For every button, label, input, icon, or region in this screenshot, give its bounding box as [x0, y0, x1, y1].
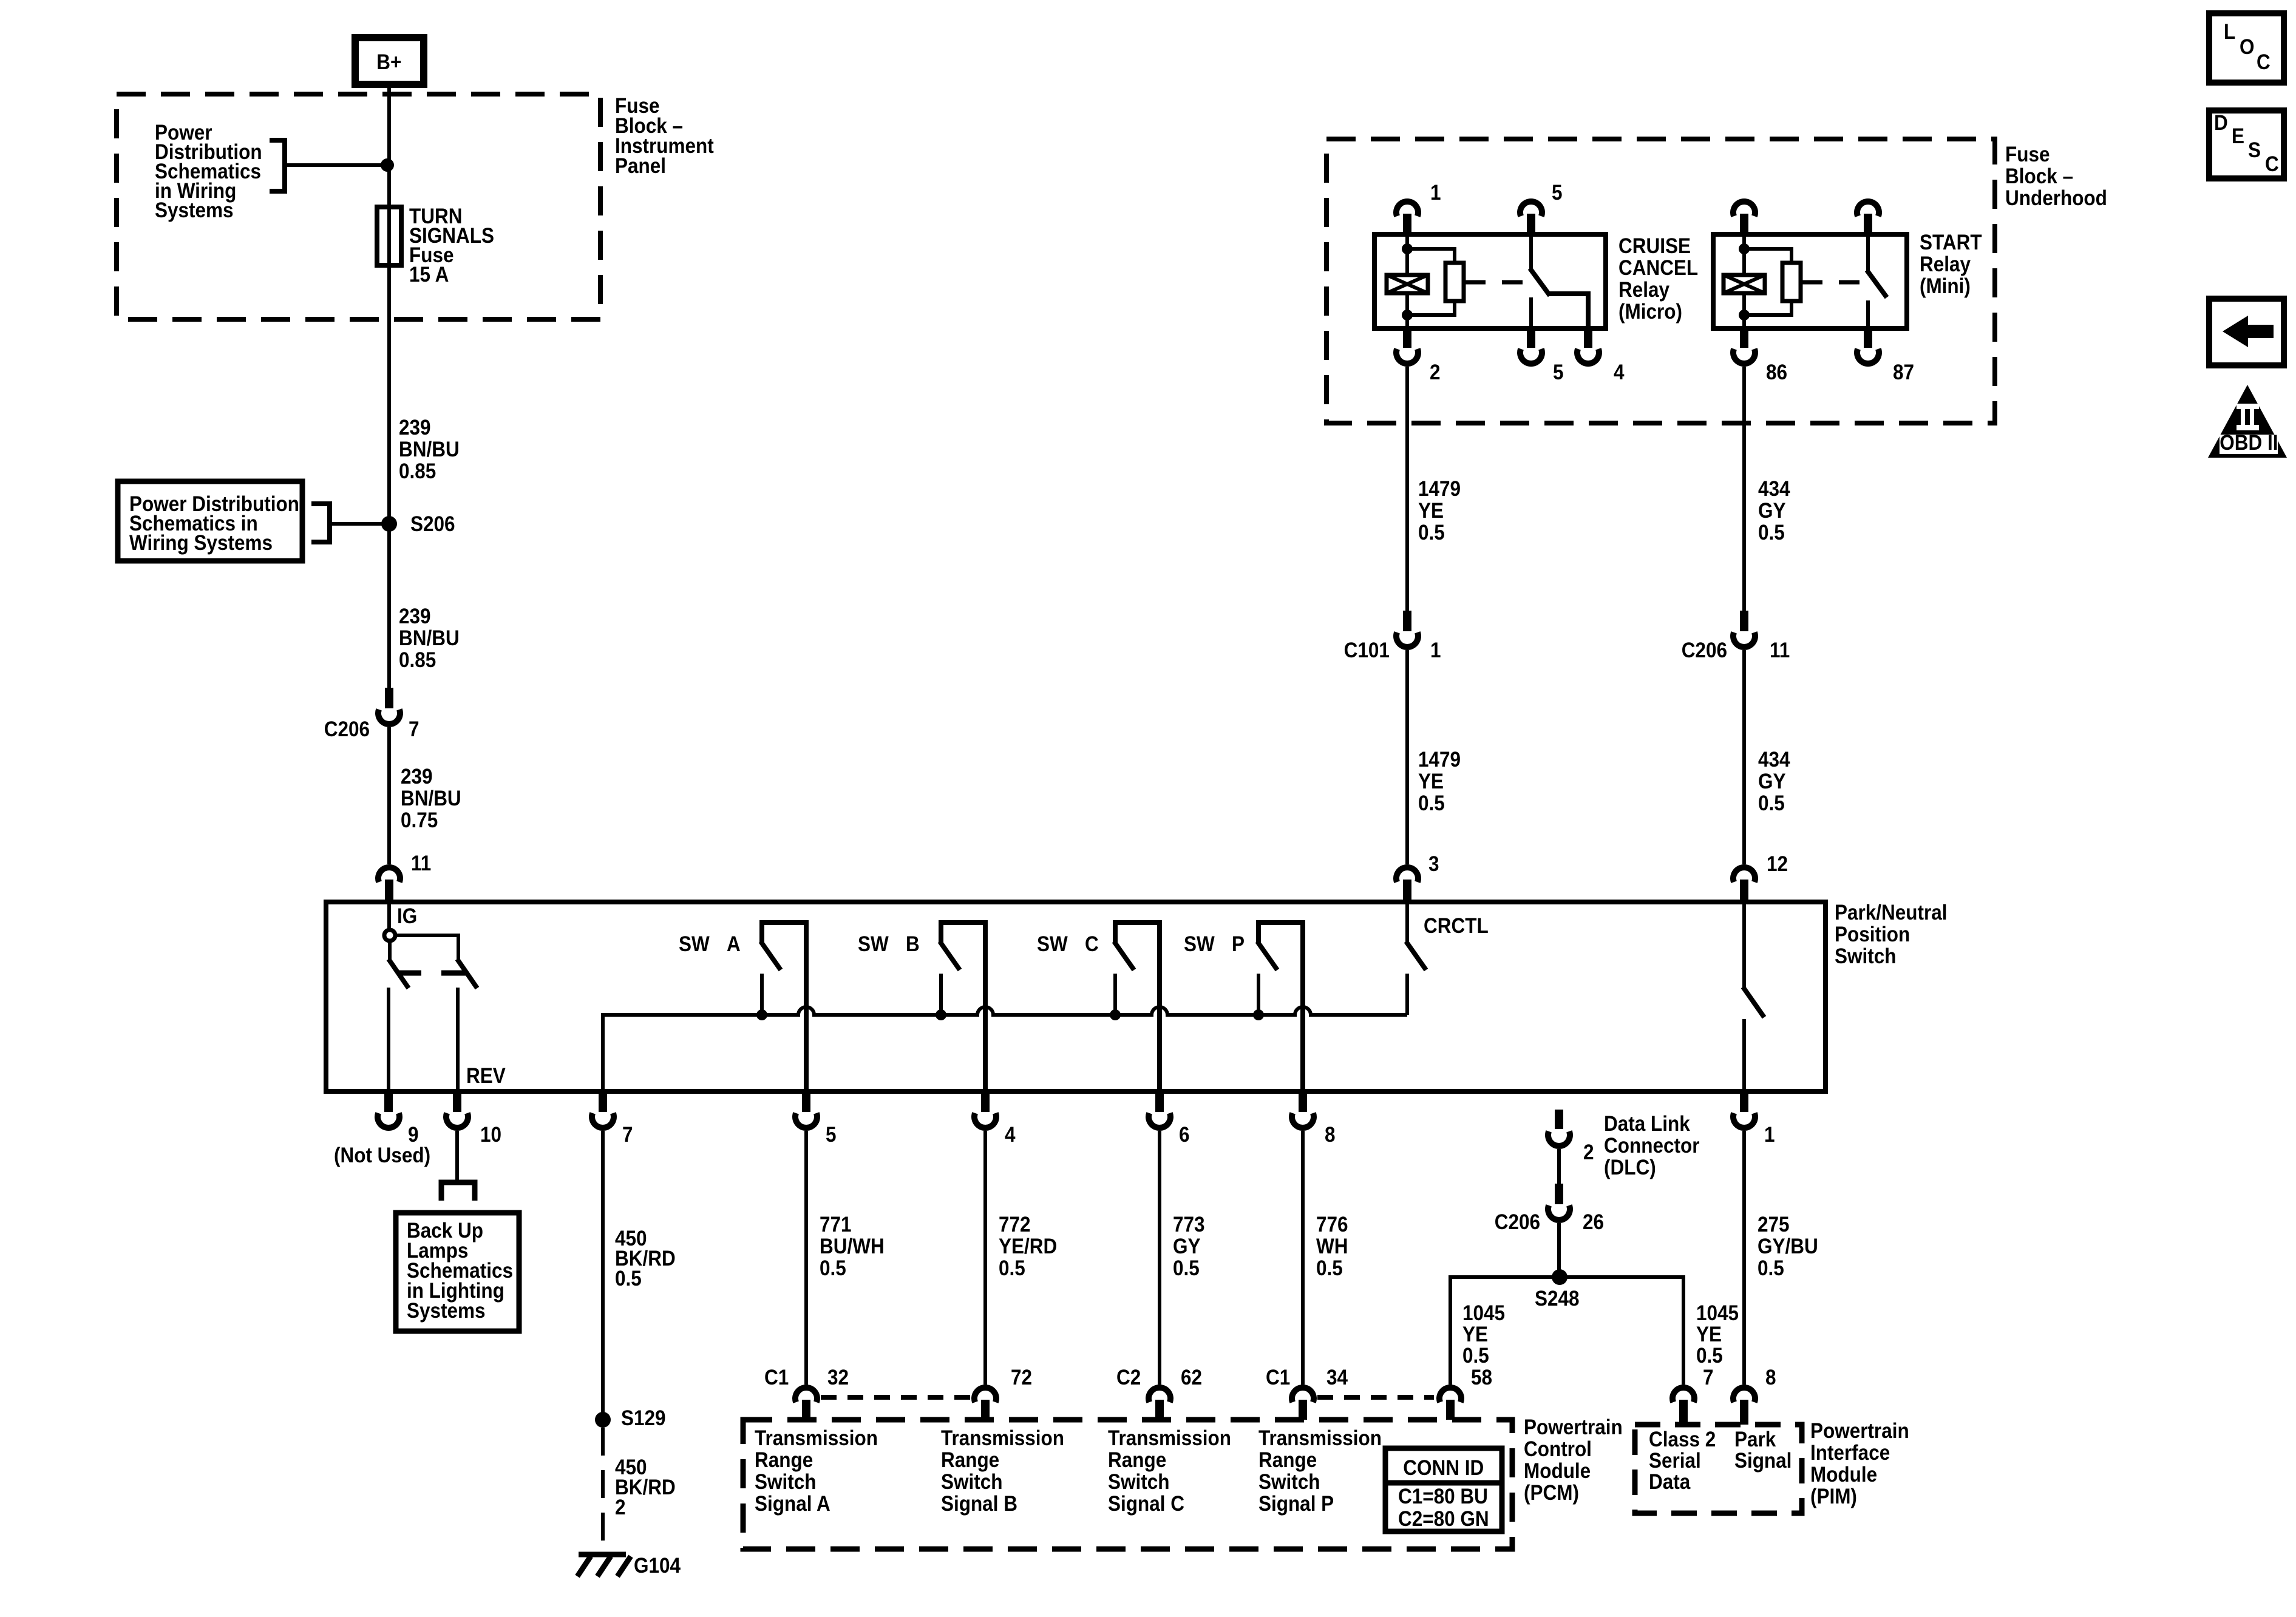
svg-text:BU/WH: BU/WH	[820, 1235, 885, 1259]
svg-text:Wiring Systems: Wiring Systems	[129, 532, 273, 555]
label pin 3	[1428, 853, 1439, 876]
start relay switch pivot wire	[1866, 236, 1870, 271]
wire label 239 BN/BU 0.75	[401, 765, 433, 789]
svg-text:0.5: 0.5	[1418, 792, 1445, 816]
switch SW P fixed contact	[1257, 974, 1260, 1015]
svg-text:8: 8	[1765, 1366, 1776, 1390]
svg-text:62: 62	[1181, 1366, 1202, 1390]
label pin 10	[480, 1124, 501, 1147]
start relay coil pin top connector cup	[1733, 202, 1755, 216]
svg-text:L: L	[2224, 21, 2235, 44]
P/N switch pin 6 connector cup	[1149, 1113, 1170, 1128]
label pin 2 (DLC)	[1583, 1141, 1594, 1165]
svg-text:0.75: 0.75	[401, 809, 438, 833]
cruise relay NC contact	[1529, 297, 1533, 328]
svg-text:7: 7	[409, 718, 419, 742]
svg-text:C2: C2	[1116, 1366, 1141, 1390]
label pin 5	[826, 1124, 837, 1147]
wire C206-7 to pin 11	[387, 727, 391, 864]
start relay coil bottom junction	[1739, 310, 1750, 320]
label Transmission Range Switch Signal A	[755, 1427, 878, 1451]
wire pin5 to PCM	[804, 1131, 808, 1385]
svg-text:0.5: 0.5	[1316, 1257, 1343, 1281]
svg-text:86: 86	[1766, 361, 1787, 385]
wire label 771 BU/WH 0.5	[820, 1213, 852, 1237]
cruise relay switch arm	[1530, 268, 1550, 296]
svg-text:YE/RD: YE/RD	[999, 1235, 1057, 1259]
wire DLC to C206-26	[1557, 1149, 1561, 1184]
label G104	[634, 1554, 681, 1578]
svg-text:11: 11	[411, 852, 431, 876]
svg-text:0.5: 0.5	[615, 1267, 642, 1291]
svg-text:0.5: 0.5	[999, 1257, 1025, 1281]
svg-text:0.85: 0.85	[399, 649, 436, 673]
connector C206 pin 11 pin bar	[1740, 611, 1748, 631]
bracket for note box	[311, 504, 330, 542]
wire label 434 GY 0.5 (upper)	[1758, 478, 1790, 501]
wire pin 10 to backup lamps bracket	[455, 1131, 459, 1182]
label IG	[397, 905, 417, 929]
svg-text:Control: Control	[1524, 1438, 1592, 1462]
P/N switch pin 11 pin bar	[385, 880, 393, 902]
svg-text:434: 434	[1758, 478, 1790, 501]
svg-text:Range: Range	[1258, 1449, 1317, 1473]
connector C206 pin 26 pin bar	[1555, 1184, 1563, 1204]
svg-text:Signal A: Signal A	[755, 1493, 830, 1516]
svg-text:Module: Module	[1810, 1463, 1877, 1487]
svg-text:Serial: Serial	[1649, 1449, 1701, 1473]
svg-text:8: 8	[1325, 1124, 1336, 1147]
label SW P	[1184, 933, 1215, 957]
start relay coil pin top pin bar	[1740, 214, 1748, 236]
label CRUISE CANCEL Relay (Micro)	[1618, 235, 1691, 259]
P/N switch pin 3 connector cup	[1396, 867, 1418, 882]
label start relay pin 86	[1766, 361, 1787, 385]
label TURN SIGNALS Fuse 15 A	[409, 205, 462, 229]
wire label 773 GY 0.5	[1173, 1213, 1205, 1237]
svg-text:BN/BU: BN/BU	[401, 787, 461, 811]
svg-text:7: 7	[622, 1124, 633, 1147]
connector C206 pin 7 connector cup	[378, 710, 400, 724]
svg-text:Park/Neutral: Park/Neutral	[1835, 901, 1948, 925]
svg-text:1: 1	[1764, 1124, 1775, 1147]
svg-text:SW: SW	[679, 933, 710, 957]
svg-text:Powertrain: Powertrain	[1810, 1420, 1909, 1443]
start relay switch arm	[1867, 270, 1887, 297]
svg-text:YE: YE	[1696, 1323, 1722, 1347]
legend DESC box	[2209, 110, 2284, 178]
battery terminal B+ box	[355, 38, 424, 84]
legend OBD II label box	[2220, 435, 2278, 454]
PCM pin 62 connector cup	[1149, 1388, 1170, 1402]
wire label 1045 YE 0.5 (right)	[1696, 1302, 1739, 1326]
start relay NC contact	[1866, 300, 1870, 328]
start relay box	[1713, 234, 1907, 328]
bus wire (common) with hops	[603, 1007, 1407, 1091]
wire pin6 to PCM	[1158, 1131, 1161, 1385]
P/N switch pin 10 connector cup	[446, 1113, 468, 1128]
svg-text:S: S	[2248, 139, 2261, 163]
PIM pin 8 pin bar	[1740, 1400, 1748, 1425]
label S206	[410, 513, 455, 537]
svg-text:1045: 1045	[1462, 1302, 1505, 1326]
bracket for power distribution note	[270, 140, 285, 191]
wire pin8 to PCM	[1301, 1131, 1305, 1385]
start relay pin 87 connector cup	[1857, 349, 1879, 364]
start relay coil top junction	[1739, 243, 1750, 254]
label C2	[1116, 1366, 1141, 1390]
label Fuse Block - Underhood	[2005, 143, 2050, 167]
svg-text:11: 11	[1770, 639, 1790, 663]
svg-text:87: 87	[1893, 361, 1914, 385]
label CRCTL	[1424, 915, 1489, 938]
S248 branch wires	[1450, 1277, 1683, 1385]
svg-text:1045: 1045	[1696, 1302, 1739, 1326]
svg-text:Underhood: Underhood	[2005, 187, 2107, 211]
note box text	[129, 493, 299, 517]
label pin 9	[408, 1124, 419, 1147]
wire label 772 YE/RD 0.5	[999, 1213, 1031, 1237]
label pin 7 (PIM)	[1703, 1366, 1714, 1390]
P/N switch pin 4 pin bar	[981, 1091, 990, 1112]
start relay coil feed wire	[1742, 236, 1746, 328]
P/N switch pin 7 connector cup	[592, 1113, 614, 1128]
svg-text:GY: GY	[1758, 500, 1785, 523]
label pin 8 (PIM)	[1765, 1366, 1776, 1390]
powertrain control module dashed box	[743, 1420, 1512, 1549]
svg-text:0.5: 0.5	[1758, 521, 1785, 545]
junction bus / SW B	[936, 1009, 946, 1020]
svg-text:0.85: 0.85	[399, 460, 436, 484]
start relay actuation dashed line	[1802, 280, 1868, 285]
svg-text:5: 5	[1552, 181, 1563, 205]
label pin 11	[411, 852, 431, 876]
wire pin4 to PCM	[983, 1131, 987, 1385]
wire start relay pin 86 down	[1742, 367, 1746, 611]
svg-text:1479: 1479	[1418, 478, 1461, 501]
battery terminal B+ label	[376, 51, 401, 75]
label pin 7	[622, 1124, 633, 1147]
PIM pin 8 connector cup	[1733, 1388, 1755, 1402]
svg-text:Signal P: Signal P	[1258, 1493, 1334, 1516]
svg-text:BN/BU: BN/BU	[399, 438, 460, 462]
start relay resistor loop wires	[1744, 249, 1792, 263]
svg-text:CRUISE: CRUISE	[1618, 235, 1691, 259]
svg-text:YE: YE	[1462, 1323, 1488, 1347]
svg-text:Range: Range	[941, 1449, 999, 1473]
svg-text:Panel: Panel	[615, 155, 666, 178]
cruise relay resistor	[1445, 263, 1464, 301]
svg-text:773: 773	[1173, 1213, 1205, 1237]
svg-text:C1=80 BU: C1=80 BU	[1398, 1485, 1488, 1509]
svg-text:5: 5	[1553, 361, 1564, 385]
switch SW A arm	[761, 941, 781, 970]
P/N switch pin 3 pin bar	[1403, 880, 1411, 902]
cruise relay pin 4 pin bar	[1584, 328, 1592, 348]
cruise relay pin 5 top pin bar	[1527, 214, 1535, 236]
svg-text:Interface: Interface	[1810, 1442, 1890, 1465]
P/N switch pin 4 connector cup	[974, 1113, 996, 1128]
P/N switch pin 8 connector cup	[1292, 1113, 1314, 1128]
svg-text:Transmission: Transmission	[755, 1427, 878, 1451]
svg-text:7: 7	[1703, 1366, 1714, 1390]
wire label 239 BN/BU 0.85 (upper)	[399, 416, 431, 440]
svg-text:Class 2: Class 2	[1649, 1428, 1716, 1452]
label Powertrain Control Module (PCM)	[1524, 1416, 1623, 1440]
svg-text:2: 2	[1583, 1141, 1594, 1165]
DLC pin 2 bar	[1555, 1110, 1563, 1129]
svg-text:72: 72	[1011, 1366, 1032, 1390]
svg-text:B+: B+	[376, 51, 401, 75]
wire bracket to main wire	[285, 163, 389, 167]
powertrain interface module dashed box	[1635, 1425, 1802, 1513]
start relay coil symbol	[1724, 275, 1765, 293]
fuse block underhood dashed box	[1326, 139, 1995, 423]
start relay pin 87 pin bar	[1864, 328, 1872, 348]
wire label 239 BN/BU 0.85 (lower)	[399, 605, 431, 629]
splice S129	[595, 1412, 611, 1428]
wire cruise relay pin 2 down	[1405, 367, 1409, 611]
label pin 8	[1325, 1124, 1336, 1147]
svg-text:P: P	[1232, 933, 1245, 957]
svg-text:Range: Range	[755, 1449, 813, 1473]
IG switch pivot	[384, 930, 395, 941]
cruise relay pin 1 connector cup	[1396, 202, 1418, 216]
svg-text:SW: SW	[1037, 933, 1068, 957]
P/N switch pin 1 pin bar	[1740, 1091, 1748, 1112]
svg-text:Switch: Switch	[1108, 1471, 1169, 1494]
svg-text:(Not Used): (Not Used)	[334, 1144, 430, 1168]
connector C206 pin 7 pin bar	[385, 688, 393, 708]
svg-text:Relay: Relay	[1618, 279, 1669, 302]
P/N switch pin 7 pin bar	[599, 1091, 607, 1112]
svg-text:YE: YE	[1418, 770, 1444, 794]
label C1	[764, 1366, 789, 1390]
svg-text:IG: IG	[397, 905, 417, 929]
switch SW A staple	[762, 923, 806, 1091]
label C101	[1344, 639, 1390, 663]
svg-text:2: 2	[1430, 361, 1441, 385]
svg-text:239: 239	[399, 605, 431, 629]
cruise relay pin 1 pin bar	[1403, 214, 1411, 236]
svg-text:4: 4	[1614, 361, 1625, 385]
wire label 450 BK/RD 0.5	[615, 1227, 647, 1251]
label C206 (pin 11)	[1682, 639, 1727, 663]
svg-text:10: 10	[480, 1124, 501, 1147]
wire C101 to pin 3	[1405, 650, 1409, 864]
splice S248	[1552, 1269, 1567, 1285]
P/N switch pin 6 pin bar	[1155, 1091, 1164, 1112]
svg-text:(PIM): (PIM)	[1810, 1485, 1857, 1509]
wire label 1045 YE 0.5 (left)	[1462, 1302, 1505, 1326]
wire C206-11 to pin 12	[1742, 650, 1746, 864]
svg-text:E: E	[2232, 125, 2244, 149]
svg-text:START: START	[1920, 231, 1982, 255]
cruise relay coil top junction	[1402, 243, 1413, 254]
P/N switch pin 9 connector cup	[378, 1113, 399, 1128]
label START Relay (Mini)	[1920, 231, 1982, 255]
svg-text:6: 6	[1179, 1124, 1190, 1147]
switch SW B staple	[941, 923, 985, 1091]
switch SW P arm	[1257, 941, 1277, 970]
svg-text:32: 32	[827, 1366, 849, 1390]
label SW A	[679, 933, 710, 957]
svg-text:Systems: Systems	[155, 199, 234, 223]
svg-text:771: 771	[820, 1213, 852, 1237]
ground G104 symbol	[579, 1552, 626, 1558]
wire REV to pin 10	[456, 988, 460, 1091]
cruise relay pin 4 connector cup	[1577, 349, 1599, 364]
svg-text:CRCTL: CRCTL	[1424, 915, 1489, 938]
label start relay pin 87	[1893, 361, 1914, 385]
label pin 1 (C101)	[1430, 639, 1441, 663]
svg-text:776: 776	[1316, 1213, 1348, 1237]
svg-text:S129: S129	[621, 1407, 666, 1431]
svg-text:Data: Data	[1649, 1471, 1691, 1494]
start relay pin 86 connector cup	[1733, 349, 1755, 364]
label (Not Used)	[334, 1144, 430, 1168]
label pin 62	[1181, 1366, 1202, 1390]
label C206 (pin 7)	[324, 718, 370, 742]
junction bus / SW A	[756, 1009, 767, 1020]
svg-text:C206: C206	[1495, 1211, 1540, 1235]
svg-text:4: 4	[1005, 1124, 1016, 1147]
svg-text:Signal B: Signal B	[941, 1493, 1017, 1516]
switch SW C fixed contact	[1113, 974, 1117, 1015]
svg-text:Connector: Connector	[1604, 1134, 1699, 1158]
junction bus / SW C	[1110, 1009, 1121, 1020]
label pin 12	[1767, 853, 1788, 876]
P/N switch pin 11 connector cup	[378, 867, 400, 882]
PCM pin 32 connector cup	[795, 1388, 817, 1402]
IG switch right arm	[457, 959, 477, 988]
wire bracket to S206	[330, 522, 389, 526]
svg-text:D: D	[2214, 112, 2228, 135]
backup lamps bracket	[441, 1182, 475, 1201]
label cruise relay pin 4	[1614, 361, 1625, 385]
switch SW C arm	[1114, 941, 1134, 970]
PCM pin 72 pin bar	[981, 1400, 990, 1420]
wire label 450 BK/RD 2	[615, 1456, 647, 1480]
svg-text:C2=80 GN: C2=80 GN	[1398, 1508, 1489, 1531]
cruise relay switch pivot wire	[1529, 236, 1533, 269]
P/N switch pin 12 connector cup	[1733, 867, 1755, 882]
legend DESC letters	[2214, 112, 2228, 135]
svg-text:Position: Position	[1835, 923, 1910, 947]
label CONN ID	[1403, 1457, 1484, 1480]
svg-text:0.5: 0.5	[1758, 1257, 1784, 1281]
label Park/Neutral Position Switch	[1835, 901, 1948, 925]
label pin 7	[409, 718, 419, 742]
IG switch left arm	[388, 941, 392, 960]
P/N switch pin 10 pin bar	[453, 1091, 461, 1112]
label pin 34	[1326, 1366, 1348, 1390]
svg-text:Data Link: Data Link	[1604, 1113, 1690, 1136]
junction bus / SW P	[1253, 1009, 1264, 1020]
park/neutral position switch box	[326, 902, 1826, 1091]
svg-text:C: C	[2265, 153, 2279, 177]
svg-text:A: A	[727, 933, 741, 957]
connector C101 pin 1 connector cup	[1396, 632, 1418, 647]
svg-text:G104: G104	[634, 1554, 681, 1578]
svg-text:C1: C1	[764, 1366, 789, 1390]
cruise cancel relay box	[1374, 234, 1606, 328]
svg-text:BN/BU: BN/BU	[399, 627, 460, 651]
label cruise relay pin 2	[1430, 361, 1441, 385]
CRCTL fixed contact	[1405, 974, 1409, 1015]
P/N park switch arm	[1743, 987, 1764, 1017]
svg-text:Fuse: Fuse	[2005, 143, 2050, 167]
note text power distribution schematics in wiring systems	[155, 121, 212, 145]
connector C206 pin 11 connector cup	[1733, 632, 1755, 647]
label C2=80 GN	[1398, 1508, 1489, 1531]
svg-text:C: C	[1085, 933, 1099, 957]
legend OBD II triangle	[2208, 385, 2287, 458]
switch SW C staple	[1115, 923, 1160, 1091]
svg-text:3: 3	[1428, 853, 1439, 876]
cruise relay pin 5 bottom pin bar	[1527, 328, 1535, 348]
label Data Link Connector (DLC)	[1604, 1113, 1690, 1136]
label cruise relay pin 5 bottom	[1553, 361, 1564, 385]
cruise relay actuation dashed line	[1465, 280, 1531, 285]
DLC pin 2 connector cup	[1548, 1131, 1570, 1146]
cruise relay coil bottom junction	[1402, 310, 1413, 320]
svg-text:C101: C101	[1344, 639, 1390, 663]
label pin 58	[1471, 1366, 1492, 1390]
fuse block - instrument panel dashed box	[117, 94, 600, 319]
IG left fixed contact	[397, 971, 421, 976]
PCM pin 34 pin bar	[1299, 1400, 1307, 1420]
P/N switch pin 1 connector cup	[1733, 1113, 1755, 1128]
svg-text:OBD II: OBD II	[2220, 432, 2278, 455]
label Fuse Block - Instrument Panel	[615, 95, 659, 118]
svg-text:(Mini): (Mini)	[1920, 275, 1971, 299]
label Transmission Range Switch Signal P	[1258, 1427, 1382, 1451]
cruise relay pin 2 pin bar	[1403, 328, 1411, 348]
svg-text:58: 58	[1471, 1366, 1492, 1390]
label pin 1	[1764, 1124, 1775, 1147]
note text back up lamps	[407, 1219, 483, 1243]
label C206 (pin 26)	[1495, 1211, 1540, 1235]
wire label 776 WH 0.5	[1316, 1213, 1348, 1237]
PCM pin 72 connector cup	[974, 1388, 996, 1402]
label cruise relay pin 1	[1430, 181, 1441, 205]
PCM pin 34 connector cup	[1292, 1388, 1314, 1402]
IG right fixed contact	[441, 971, 466, 976]
svg-text:GY: GY	[1173, 1235, 1200, 1259]
label S129	[621, 1407, 666, 1431]
legend OBD II pillar	[2237, 404, 2259, 409]
switch SW B arm	[940, 941, 960, 970]
PCM pin 58 connector cup	[1439, 1388, 1461, 1402]
P/N switch pin 5 pin bar	[802, 1091, 810, 1112]
junction at fuse feed	[381, 158, 394, 172]
switch SW A fixed contact	[760, 974, 764, 1015]
IG link to right contact	[395, 935, 458, 960]
CONN ID table box	[1385, 1448, 1502, 1531]
label Transmission Range Switch Signal B	[941, 1427, 1064, 1451]
label SW B	[858, 933, 889, 957]
cruise relay switch output wire	[1549, 294, 1588, 328]
svg-text:B: B	[906, 933, 920, 957]
svg-text:GY: GY	[1758, 770, 1785, 794]
cruise relay coil symbol	[1387, 275, 1428, 293]
cruise relay pin 2 connector cup	[1396, 349, 1418, 364]
svg-text:REV: REV	[466, 1065, 506, 1088]
svg-text:CANCEL: CANCEL	[1618, 257, 1698, 280]
svg-text:Signal C: Signal C	[1108, 1493, 1184, 1516]
label Powertrain Interface Module (PIM)	[1810, 1420, 1909, 1443]
